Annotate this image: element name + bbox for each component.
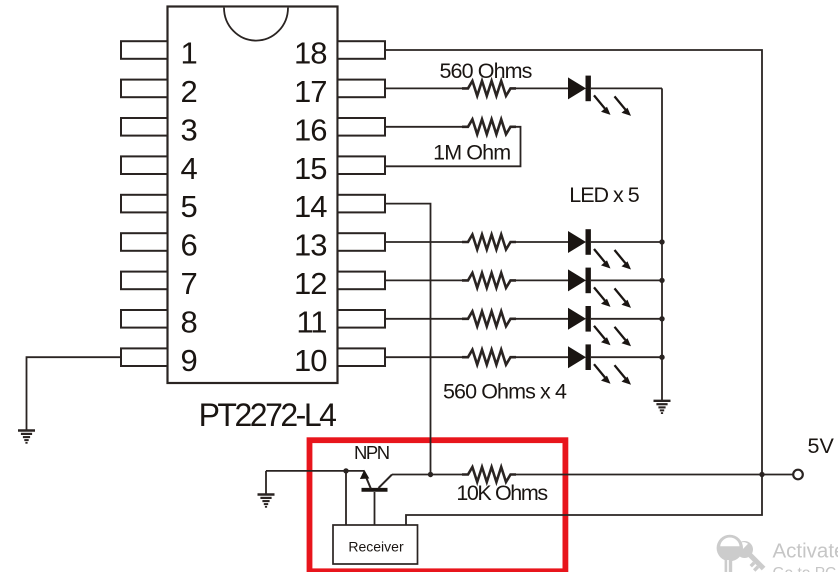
wire junction to receiver: [345, 471, 347, 525]
IC pin 7 lead: [121, 272, 168, 290]
svg-text:560 Ohms x 4: 560 Ohms x 4: [443, 380, 567, 404]
resistor R1 560 Ohms: [462, 81, 516, 96]
wire LED5 to rail: [591, 356, 662, 358]
wire R4 to LED3: [514, 279, 570, 281]
IC pin 12 lead: [338, 272, 386, 290]
IC pin 15 lead: [338, 156, 386, 174]
LED cathode rail: [661, 88, 663, 400]
svg-text:14: 14: [294, 189, 327, 224]
resistor R5: [462, 311, 516, 326]
svg-text:Go to PC settings to activate: Go to PC settings to activate Windows.: [773, 565, 838, 572]
IC pin 8 lead: [121, 310, 168, 328]
resistor R6: [462, 350, 516, 365]
junction dot rail row11: [659, 316, 664, 321]
resistor R4: [462, 273, 516, 288]
IC pin 17 lead: [338, 80, 386, 98]
junction dot rail row13: [659, 239, 664, 244]
wire pin18 to 5V rail: [385, 50, 762, 525]
wire 10K to 5V rail: [514, 474, 762, 476]
wire pin17 to R1: [385, 87, 462, 89]
wire collector to 10K: [392, 474, 462, 476]
svg-text:5V: 5V: [808, 434, 835, 458]
IC pin 1 lead: [121, 41, 168, 59]
wire LED4 to rail: [591, 318, 662, 320]
transistor Q1 emitter arrowhead: [360, 470, 369, 479]
IC pin 4 lead: [121, 156, 168, 174]
IC pin 13 lead: [338, 233, 386, 251]
wire pin14 down to transistor collector node: [385, 204, 431, 475]
ground for LED rail: [654, 401, 671, 413]
svg-text:10K Ohms: 10K Ohms: [456, 481, 547, 505]
wire ground drop: [265, 471, 267, 494]
IC pin 9 lead: [121, 348, 168, 366]
resistor R3: [462, 235, 516, 250]
wire pin10 to R6: [385, 356, 462, 358]
ground for emitter rail: [258, 495, 275, 507]
junction dot emitter rail: [343, 468, 348, 473]
LED D5: [568, 344, 631, 384]
LED D2: [568, 229, 631, 269]
wire pin12 to R4: [385, 279, 462, 281]
svg-text:16: 16: [294, 112, 326, 147]
IC pin 14 lead: [338, 195, 386, 213]
IC pin 11 lead: [338, 310, 386, 328]
svg-text:Activate Windows: Activate Windows: [773, 540, 838, 563]
wire R1 to LED1: [514, 87, 570, 89]
svg-text:LED x 5: LED x 5: [569, 183, 640, 207]
transistor Q1 collector stroke: [379, 475, 393, 489]
svg-text:17: 17: [294, 74, 326, 109]
svg-text:15: 15: [294, 151, 326, 186]
svg-text:11: 11: [296, 304, 326, 339]
wire R6 to LED5: [514, 356, 570, 358]
wire pin16 to R2: [385, 126, 462, 128]
IC pin 18 lead: [338, 41, 386, 59]
svg-text:18: 18: [294, 36, 326, 71]
svg-text:NPN: NPN: [354, 442, 389, 463]
svg-text:12: 12: [294, 266, 326, 301]
IC pin 6 lead: [121, 233, 168, 251]
junction dot collector node: [428, 472, 433, 477]
IC U1 body PT2272-L4: [168, 7, 338, 384]
svg-text:13: 13: [294, 228, 326, 263]
LED D3: [568, 268, 631, 308]
receiver box: [333, 525, 418, 564]
wire LED2 to rail: [591, 241, 662, 243]
watermark key icon: [717, 535, 770, 572]
IC pin 5 lead: [121, 195, 168, 213]
svg-text:PT2272-L4: PT2272-L4: [199, 397, 337, 433]
ground for pin9: [18, 431, 35, 443]
transistor Q1 base bar: [362, 488, 388, 492]
svg-text:4: 4: [181, 151, 198, 186]
svg-text:9: 9: [181, 343, 198, 378]
red highlight box around receiver stage: [310, 440, 566, 571]
LED D1: [568, 76, 631, 116]
svg-text:3: 3: [181, 112, 198, 147]
wire base to receiver: [374, 492, 376, 525]
svg-text:Receiver: Receiver: [348, 538, 404, 554]
svg-text:7: 7: [181, 266, 198, 301]
wire pin13 to R3: [385, 241, 462, 243]
wire pin9 to ground: [27, 357, 122, 430]
IC pin 10 lead: [338, 348, 386, 366]
svg-text:1: 1: [181, 36, 198, 71]
IC U1 notch: [224, 8, 288, 41]
svg-text:5: 5: [181, 189, 198, 224]
svg-text:8: 8: [181, 304, 198, 339]
IC pin 2 lead: [121, 80, 168, 98]
junction dot at 5V rail: [759, 472, 764, 477]
wire R2 back to pin15: [385, 127, 521, 167]
resistor R2 1M Ohm: [462, 119, 516, 134]
svg-text:10: 10: [294, 343, 327, 378]
wire R5 to LED4: [514, 318, 570, 320]
LED D4: [568, 306, 631, 346]
wire pin11 to R5: [385, 318, 462, 320]
resistor R7 10K: [462, 467, 516, 482]
IC pin 16 lead: [338, 118, 386, 136]
IC pin 3 lead: [121, 118, 168, 136]
wire LED1 to cathode rail: [591, 87, 662, 89]
5V terminal open circle: [793, 470, 803, 480]
wire 5V terminal stub: [762, 474, 793, 476]
svg-text:560 Ohms: 560 Ohms: [440, 59, 532, 83]
wire LED3 to rail: [591, 279, 662, 281]
transistor Q1 emitter stroke: [366, 478, 371, 489]
svg-text:6: 6: [181, 228, 198, 263]
junction dot rail row12: [659, 278, 664, 283]
svg-text:2: 2: [181, 74, 198, 109]
wire emitter ground rail: [266, 470, 364, 472]
svg-text:1M Ohm: 1M Ohm: [433, 141, 510, 165]
wire R3 to LED2: [514, 241, 570, 243]
junction dot rail row10: [659, 355, 664, 360]
